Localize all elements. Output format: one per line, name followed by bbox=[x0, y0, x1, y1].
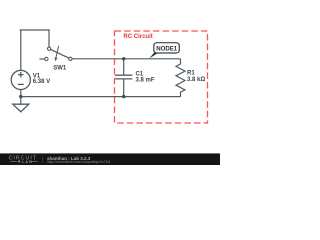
svg-text:V1: V1 bbox=[33, 73, 41, 79]
junction dot at ground node bbox=[19, 95, 22, 98]
ground bbox=[13, 104, 29, 112]
RC Circuit label bbox=[123, 34, 152, 40]
footer bar bbox=[0, 153, 220, 165]
svg-text:3.8 kΩ: 3.8 kΩ bbox=[187, 77, 205, 83]
node NODE1 callout bbox=[149, 43, 179, 59]
wire bottom bbox=[21, 96, 181, 98]
svg-text:SW1: SW1 bbox=[53, 65, 67, 71]
label R1 value bbox=[187, 71, 205, 84]
svg-text:6.38 V: 6.38 V bbox=[33, 79, 50, 85]
junction node top of C1 bbox=[122, 57, 125, 60]
wire top horizontal bbox=[20, 29, 49, 31]
wire top-left from V1 up bbox=[20, 30, 22, 70]
label SW1 bbox=[53, 65, 67, 71]
wire down to switch bbox=[48, 29, 50, 47]
switch SW1 bbox=[39, 46, 72, 61]
junction node bottom of C1 bbox=[122, 95, 125, 98]
svg-text:3.8 mF: 3.8 mF bbox=[136, 78, 155, 84]
RC Circuit enclosure box bbox=[115, 31, 208, 123]
footer text line 2 url bbox=[47, 159, 111, 164]
svg-text:NODE1: NODE1 bbox=[156, 45, 178, 52]
label NODE1 bbox=[156, 45, 178, 52]
svg-text:C1: C1 bbox=[136, 71, 144, 77]
label C1 value bbox=[136, 71, 155, 83]
wire V1 bottom to ground bbox=[20, 90, 22, 105]
resistor R1 bbox=[176, 59, 185, 97]
svg-text:http://circuitlab.com/c/spw6qe: http://circuitlab.com/c/spw6qe2c7k3 bbox=[47, 159, 111, 164]
wire switch to node (top) bbox=[72, 58, 180, 60]
footer divider bbox=[42, 156, 44, 163]
svg-text:R1: R1 bbox=[187, 71, 195, 77]
label V1 value bbox=[33, 73, 50, 85]
footer text line 1 bbox=[47, 156, 91, 161]
svg-text:RC Circuit: RC Circuit bbox=[123, 34, 152, 40]
footer logo CIRCUIT bbox=[9, 155, 37, 161]
voltage source V1 bbox=[11, 70, 30, 89]
capacitor C1 bbox=[115, 59, 132, 97]
footer logo LAB row with bolt bbox=[10, 159, 38, 164]
svg-text:LAB: LAB bbox=[22, 159, 33, 164]
